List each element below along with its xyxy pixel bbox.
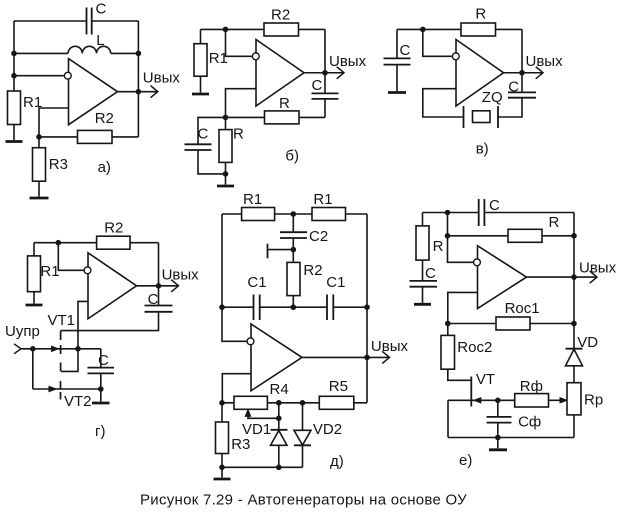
svg-text:е): е) [459, 452, 472, 469]
svg-text:Uвых: Uвых [143, 70, 181, 87]
svg-text:г): г) [95, 423, 105, 440]
svg-text:Uвых: Uвых [162, 267, 200, 284]
svg-text:VD: VD [577, 334, 598, 351]
svg-text:R1: R1 [40, 263, 59, 280]
svg-text:R: R [233, 126, 244, 143]
svg-text:R1: R1 [23, 94, 42, 111]
svg-text:Uупр: Uупр [5, 323, 40, 340]
svg-text:C: C [148, 291, 159, 308]
svg-text:R1: R1 [313, 191, 332, 208]
svg-text:ZQ: ZQ [482, 89, 503, 106]
svg-text:Uвых: Uвых [329, 53, 367, 70]
svg-text:C1: C1 [326, 274, 345, 291]
svg-text:VT: VT [476, 371, 495, 388]
svg-text:C: C [508, 79, 519, 96]
svg-text:Rp: Rp [584, 392, 603, 409]
svg-text:Rф: Rф [520, 378, 543, 395]
svg-text:R3: R3 [231, 436, 250, 453]
svg-text:R: R [279, 95, 290, 112]
svg-text:Сф: Сф [518, 414, 541, 431]
svg-text:R: R [475, 5, 486, 22]
svg-text:C: C [489, 197, 500, 214]
svg-text:Uвых: Uвых [526, 53, 564, 70]
svg-text:Uвых: Uвых [371, 338, 409, 355]
svg-text:C2: C2 [309, 228, 328, 245]
svg-text:R3: R3 [49, 156, 68, 173]
svg-text:R2: R2 [104, 220, 123, 237]
svg-text:Рисунок 7.29 - Автогенераторы: Рисунок 7.29 - Автогенераторы на основе … [140, 492, 467, 509]
svg-text:д): д) [330, 453, 344, 470]
svg-text:Rос1: Rос1 [505, 300, 540, 317]
svg-text:а): а) [98, 159, 111, 176]
svg-text:VT2: VT2 [64, 393, 92, 410]
svg-text:C: C [96, 1, 107, 18]
svg-text:C: C [425, 265, 436, 282]
svg-text:C: C [400, 42, 411, 59]
svg-text:C: C [198, 126, 209, 143]
svg-text:C: C [312, 77, 323, 94]
svg-text:R2: R2 [95, 110, 114, 127]
svg-text:б): б) [285, 148, 299, 165]
svg-text:R2: R2 [271, 7, 290, 24]
svg-text:R2: R2 [303, 262, 322, 279]
svg-text:R: R [433, 238, 444, 255]
svg-text:R1: R1 [209, 50, 228, 67]
svg-text:C1: C1 [247, 274, 266, 291]
svg-text:C: C [98, 352, 109, 369]
svg-text:R: R [549, 214, 560, 231]
svg-text:Uвых: Uвых [579, 260, 617, 277]
svg-text:в): в) [476, 141, 489, 158]
svg-text:VD2: VD2 [313, 421, 342, 438]
svg-text:Rос2: Rос2 [457, 339, 492, 356]
svg-text:R1: R1 [243, 191, 262, 208]
svg-text:VT1: VT1 [48, 312, 76, 329]
svg-text:R5: R5 [329, 378, 348, 395]
svg-text:L: L [96, 32, 104, 49]
svg-text:R4: R4 [270, 381, 289, 398]
